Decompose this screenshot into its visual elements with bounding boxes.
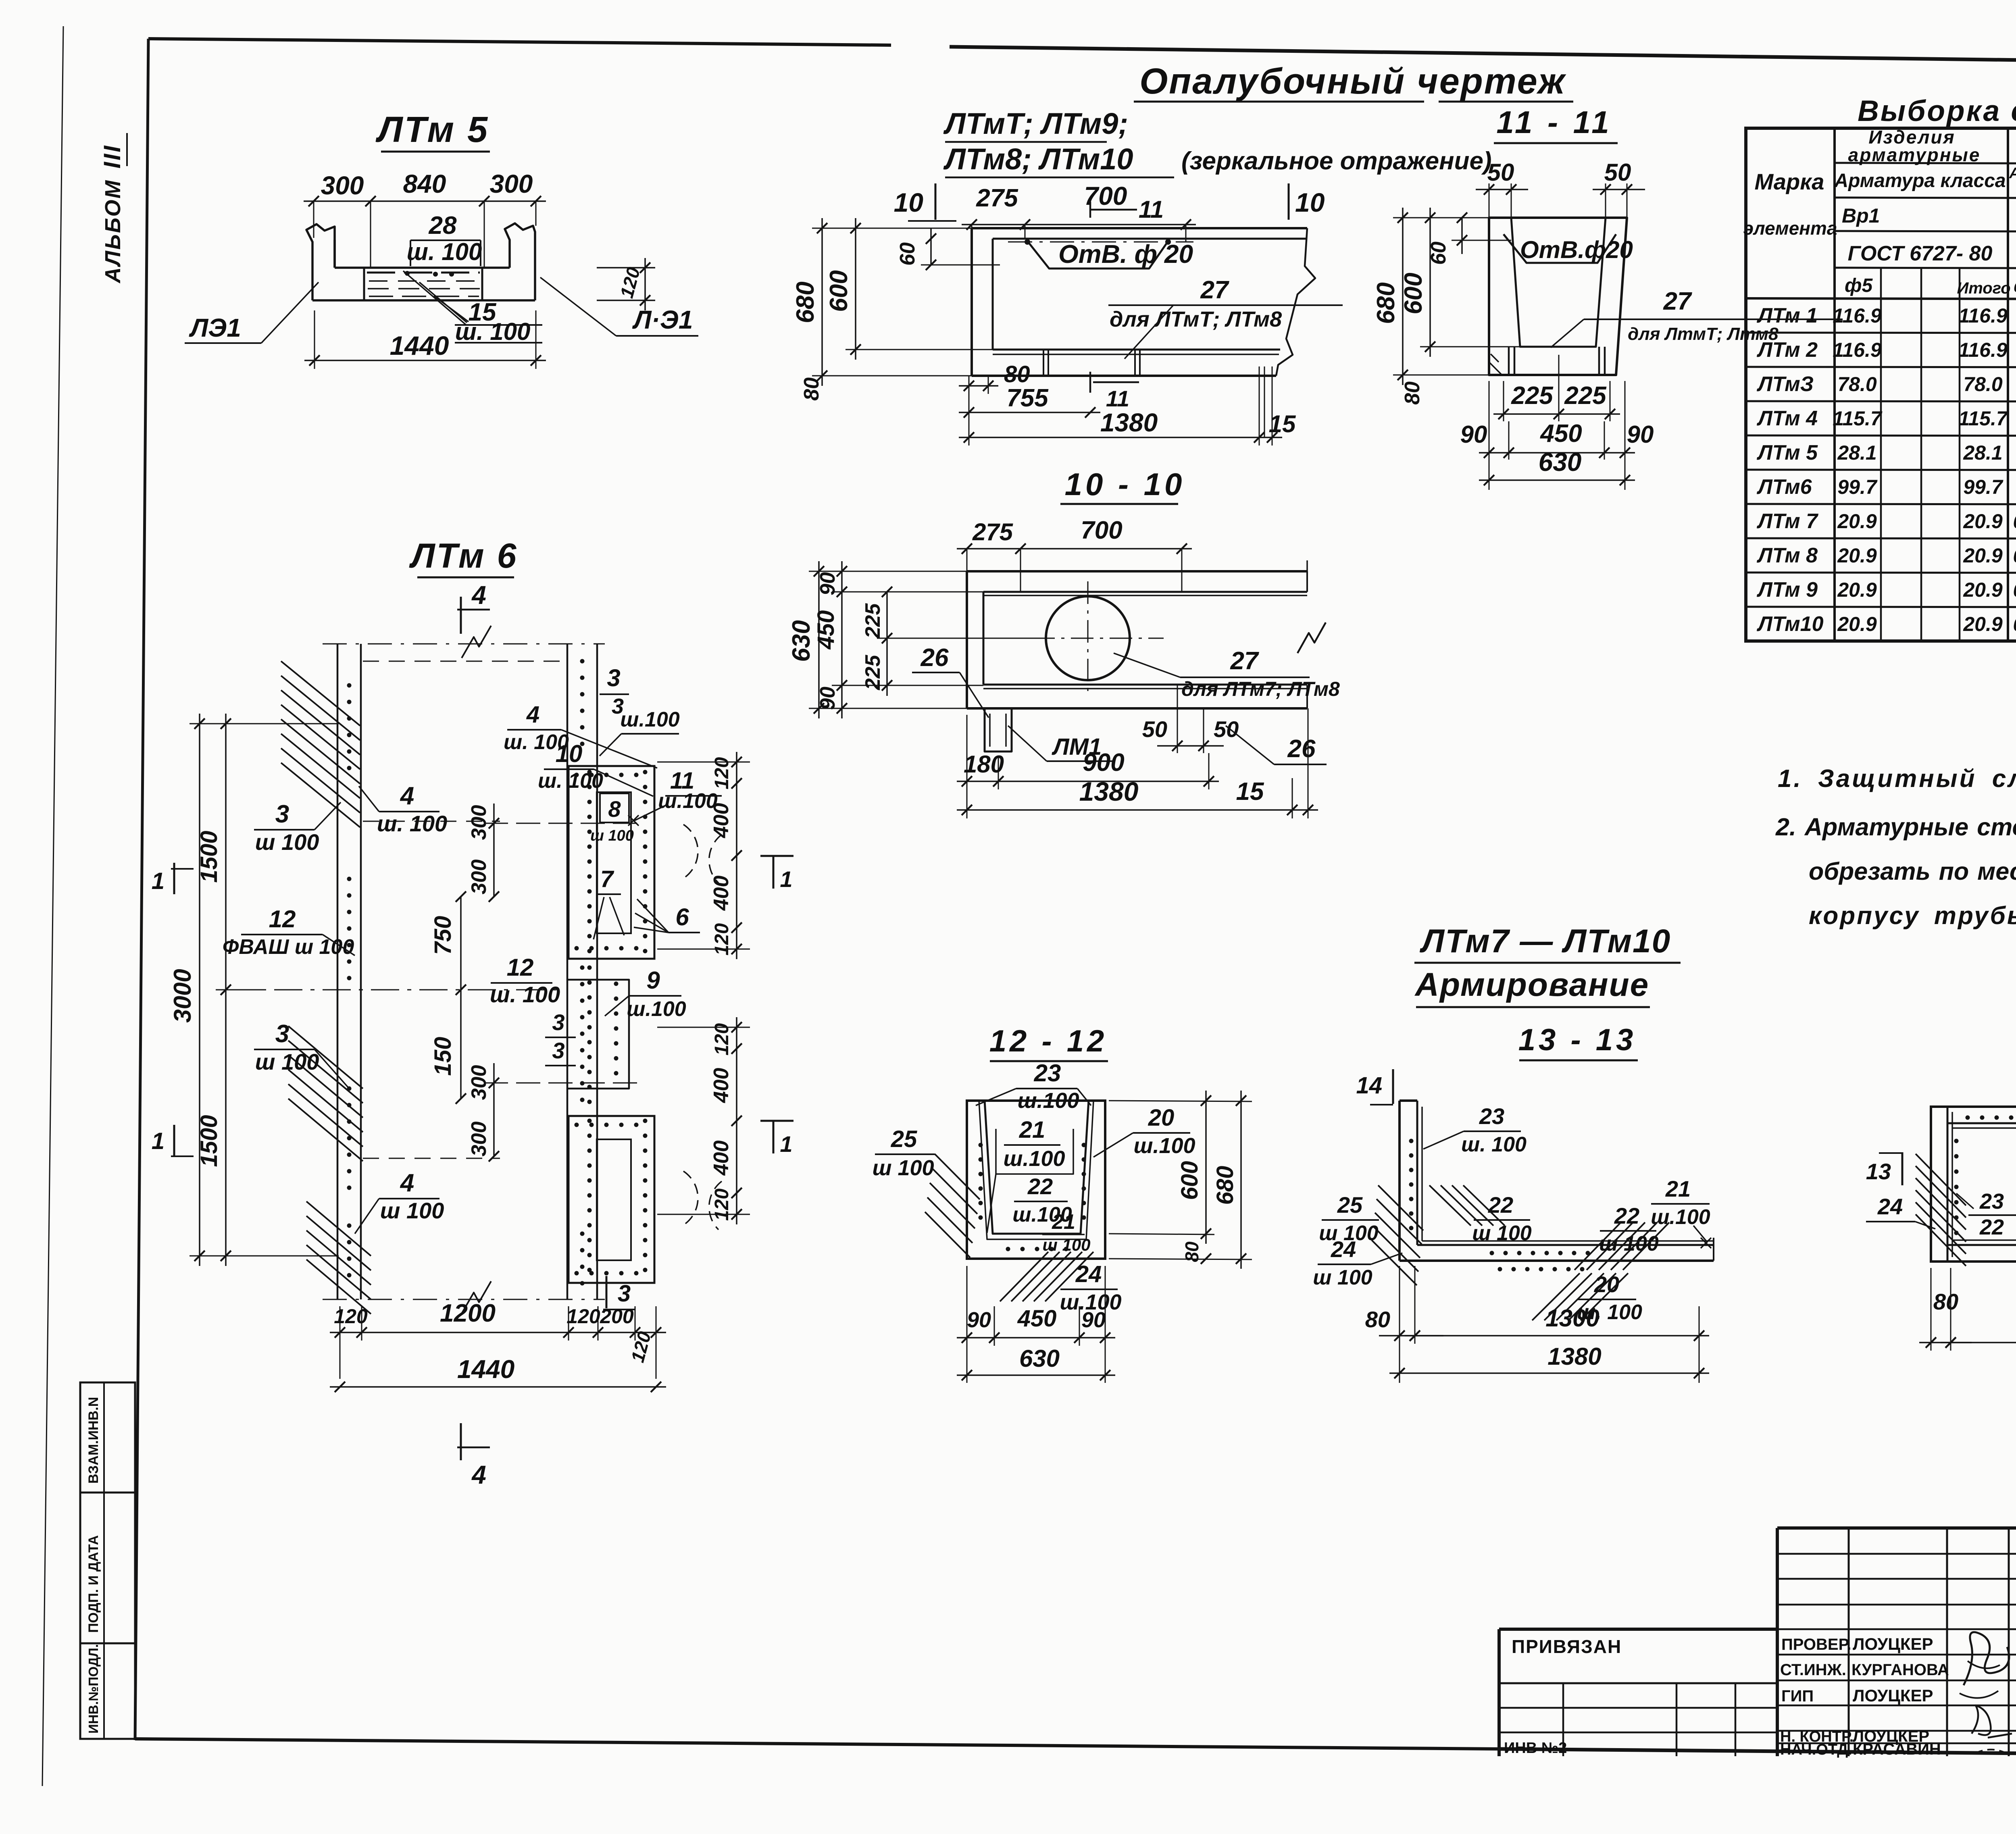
- 11-11 left dim 680: [1402, 208, 1404, 385]
- svg-text:115.7: 115.7: [1958, 407, 2008, 430]
- mark 11 top: [1089, 202, 1091, 218]
- svg-text:ш 100: ш 100: [380, 1198, 444, 1223]
- svg-text:КУРГАНОВА: КУРГАНОВА: [1851, 1661, 1949, 1679]
- 11-11 bottom dim 90/450/90: [1479, 452, 1635, 454]
- svg-text:275: 275: [972, 518, 1014, 545]
- 12-12 bottom dim 90/450/90: [957, 1337, 1115, 1339]
- svg-text:ЛОУЦКЕР: ЛОУЦКЕР: [1853, 1634, 1933, 1653]
- svg-text:ЛТм6: ЛТм6: [1756, 475, 1812, 499]
- LTm7 bottom dim 80: [959, 385, 998, 387]
- svg-text:ш.100: ш.100: [1133, 1134, 1195, 1158]
- svg-text:300: 300: [467, 805, 491, 840]
- svg-text:20.9: 20.9: [1837, 544, 1877, 567]
- svg-text:ЛТм10: ЛТм10: [1756, 612, 1824, 636]
- svg-text:Марка: Марка: [1755, 169, 1824, 194]
- svg-text:Вр1: Вр1: [1842, 204, 1880, 227]
- svg-text:3: 3: [275, 800, 289, 828]
- svg-text:ГИП: ГИП: [1781, 1687, 1814, 1705]
- svg-text:27: 27: [1663, 287, 1692, 315]
- svg-text:1440: 1440: [390, 331, 449, 360]
- svg-text:450: 450: [1539, 420, 1582, 448]
- svg-text:27: 27: [1230, 647, 1259, 675]
- LTm6 long wall lines left pair: [337, 644, 339, 1299]
- svg-text:80: 80: [1365, 1307, 1390, 1332]
- svg-text:ш.100: ш.100: [1003, 1147, 1065, 1171]
- 12-12 body outline: [967, 1101, 1105, 1259]
- svg-text:3: 3: [275, 1020, 289, 1048]
- svg-text:Арматура: Арматура: [2009, 165, 2016, 182]
- svg-text:21: 21: [1665, 1176, 1691, 1201]
- 10-10 left dim 90/450/90: [841, 561, 843, 718]
- svg-text:400: 400: [710, 876, 733, 911]
- svg-text:11: 11: [1139, 196, 1164, 223]
- section mark 3 bottom: [606, 1276, 608, 1308]
- svg-text:225: 225: [1511, 382, 1554, 410]
- svg-text:12: 12: [507, 954, 534, 981]
- svg-text:1: 1: [152, 1128, 165, 1154]
- LTm7 break mark right: [1276, 228, 1315, 376]
- svg-text:120: 120: [566, 1305, 600, 1328]
- svg-text:78.0: 78.0: [1963, 373, 2003, 396]
- svg-text:120: 120: [711, 923, 733, 956]
- svg-text:9: 9: [646, 967, 660, 994]
- LTm5 channel floor line: [335, 266, 510, 269]
- svg-text:28.1: 28.1: [1963, 441, 2002, 464]
- svg-text:ОтВ. ф 20: ОтВ. ф 20: [1058, 239, 1193, 269]
- left stamp column: VZAM.INV cell: [80, 1382, 135, 1493]
- svg-text:630: 630: [1539, 448, 1582, 477]
- svg-text:ОтВ.ф20: ОтВ.ф20: [1520, 236, 1633, 263]
- svg-text:ФВАШ ш 100: ФВАШ ш 100: [223, 935, 354, 959]
- svg-text:3: 3: [607, 664, 620, 691]
- svg-text:20.9: 20.9: [1963, 510, 2003, 533]
- svg-text:ЛТмТ; ЛТм9;: ЛТмТ; ЛТм9;: [943, 107, 1128, 140]
- svg-text:ш. 100: ш. 100: [504, 731, 569, 754]
- svg-text:13 - 13: 13 - 13: [1518, 1023, 1637, 1057]
- svg-text:14: 14: [1356, 1072, 1382, 1099]
- svg-text:НАЧ.ОТД.: НАЧ.ОТД.: [1780, 1741, 1852, 1758]
- LTm5 slab bottom line: [312, 299, 535, 302]
- svg-text:ЛТм 1: ЛТм 1: [1756, 304, 1818, 327]
- 11-11 bottom dim 225/225: [1493, 413, 1620, 415]
- svg-text:90: 90: [1627, 421, 1654, 448]
- svg-text:ИНВ №2: ИНВ №2: [1504, 1740, 1567, 1757]
- LTm6 bottom dim 1440: [330, 1386, 666, 1388]
- svg-text:78.0: 78.0: [1837, 373, 1877, 396]
- svg-text:ЛТм 4: ЛТм 4: [1756, 407, 1818, 430]
- svg-text:обрезать по месту, отогнуть: обрезать по месту, отогнуть и приварить …: [1809, 858, 2016, 885]
- 11-11 top dims 50 50: [1489, 183, 1490, 218]
- 14-14 body outline: [1931, 1107, 2016, 1262]
- svg-text:116.9: 116.9: [1958, 339, 2008, 361]
- svg-text:ш. 100: ш. 100: [455, 318, 531, 345]
- svg-text:ЛТм 8: ЛТм 8: [1756, 544, 1818, 567]
- 11-11 bottom dim 630: [1479, 479, 1635, 481]
- svg-text:ПРОВЕР.: ПРОВЕР.: [1781, 1636, 1851, 1653]
- svg-text:ЛОУЦКЕР: ЛОУЦКЕР: [1853, 1686, 1933, 1705]
- svg-text:680: 680: [1372, 282, 1400, 324]
- svg-text:4: 4: [471, 1460, 486, 1489]
- svg-text:450: 450: [1017, 1305, 1057, 1332]
- svg-text:300: 300: [490, 169, 533, 198]
- svg-text:ш.100: ш.100: [658, 789, 718, 813]
- signature squiggles: [1964, 1632, 2009, 1685]
- title block columns of signature part: [1848, 1528, 1850, 1756]
- svg-text:ЛТм 6: ЛТм 6: [409, 537, 518, 575]
- section mark 1 upper-left: [173, 863, 175, 894]
- svg-text:680: 680: [1212, 1166, 1238, 1205]
- section mark T1 lower: [760, 1120, 793, 1122]
- svg-text:400: 400: [710, 1141, 733, 1176]
- svg-text:20: 20: [1148, 1105, 1175, 1131]
- svg-text:ЛТм 2: ЛТм 2: [1756, 338, 1818, 362]
- svg-text:4: 4: [471, 581, 486, 610]
- svg-text:90: 90: [967, 1308, 991, 1332]
- svg-text:ш.100: ш.100: [1651, 1205, 1710, 1229]
- left stamp column: PODP I DATA cell: [80, 1493, 135, 1643]
- svg-text:ЛТм 7: ЛТм 7: [1756, 510, 1818, 533]
- svg-text:7: 7: [600, 866, 614, 892]
- 12-12 right dim 600: [1109, 1101, 1252, 1101]
- svg-text:22: 22: [1979, 1215, 2004, 1239]
- section mark 1 lower-left: [173, 1125, 175, 1156]
- svg-text:26: 26: [921, 644, 949, 672]
- 13-13 body outline: [1398, 1101, 1401, 1261]
- svg-text:25: 25: [1337, 1192, 1363, 1218]
- svg-text:1300: 1300: [1545, 1305, 1599, 1332]
- svg-text:10: 10: [894, 187, 924, 217]
- svg-text:ЛТм 5: ЛТм 5: [375, 110, 489, 150]
- svg-text:80: 80: [1004, 361, 1030, 387]
- section mark 14 top-left: [1392, 1069, 1394, 1104]
- steel table vertical lines: [1833, 128, 1836, 641]
- svg-text:(зеркальное отражение): (зеркальное отражение): [1181, 147, 1492, 175]
- svg-text:Армирование: Армирование: [1414, 966, 1649, 1003]
- svg-text:300: 300: [467, 1122, 491, 1157]
- 10-10 bottom dim 180/900: [957, 781, 1219, 782]
- frame top border: [148, 39, 891, 45]
- 13-13 rebar dots: [1409, 1139, 1414, 1143]
- svg-text:ш 100: ш 100: [1042, 1235, 1090, 1254]
- 10-10 break mark right: [1297, 622, 1326, 653]
- svg-text:СТ.ИНЖ.: СТ.ИНЖ.: [1780, 1661, 1846, 1679]
- svg-text:120: 120: [711, 1189, 733, 1221]
- svg-text:ЛТм 9: ЛТм 9: [1756, 578, 1818, 602]
- title block rows of signature part: [1777, 1553, 2016, 1555]
- svg-text:1380: 1380: [1547, 1343, 1601, 1370]
- svg-text:Опалубочный чертеж: Опалубочный чертеж: [1139, 61, 1566, 102]
- svg-text:1440: 1440: [457, 1355, 514, 1384]
- svg-text:116.9: 116.9: [1833, 339, 1882, 361]
- LTm7 body outline: [972, 227, 1307, 229]
- svg-text:20.9: 20.9: [1837, 613, 1877, 635]
- svg-text:80: 80: [1933, 1289, 1958, 1314]
- svg-text:4: 4: [400, 782, 414, 810]
- svg-text:11: 11: [1106, 386, 1129, 411]
- svg-text:630: 630: [787, 620, 815, 662]
- LTm6 dims 300 rotated group upper: [493, 804, 495, 897]
- svg-text:для ЛТмТ; ЛТм8: для ЛТмТ; ЛТм8: [1110, 307, 1282, 331]
- svg-text:ш.100: ш.100: [620, 708, 680, 731]
- 11-11 left dim 600: [1429, 208, 1431, 357]
- svg-text:15: 15: [1269, 410, 1296, 437]
- svg-text:1: 1: [780, 866, 792, 892]
- svg-text:ВЗАМ.ИНВ.N: ВЗАМ.ИНВ.N: [86, 1397, 101, 1484]
- LTm5 right height dim 120: [597, 267, 655, 269]
- svg-text:20.9: 20.9: [1837, 579, 1877, 601]
- svg-text:ш. 100: ш. 100: [377, 811, 447, 836]
- svg-text:21: 21: [1052, 1210, 1075, 1234]
- LTm5 bottom dimension 1440: [304, 360, 546, 361]
- 10-10 pipe hole circle: [1046, 596, 1130, 680]
- svg-text:для ЛтмТ; Лтм8: для ЛтмТ; Лтм8: [1628, 324, 1779, 344]
- svg-text:ЛТм 5: ЛТм 5: [1756, 441, 1818, 464]
- LTm6 rebar dots along left wall: [347, 683, 352, 688]
- svg-text:225: 225: [1564, 382, 1607, 410]
- LTm6 hatch on left wall lower: [288, 1026, 363, 1089]
- svg-text:90: 90: [1081, 1308, 1106, 1332]
- LTm5 top dimension chain 300/840/300: [304, 200, 546, 202]
- svg-text:750: 750: [430, 916, 456, 955]
- LTm5 monolithic insert hatched block: [363, 268, 365, 300]
- svg-text:60: 60: [896, 242, 919, 266]
- svg-text:3000: 3000: [169, 969, 196, 1022]
- LTm6 lower reinforcement cage: [569, 1116, 654, 1283]
- 10-10 dim 50/50: [1177, 685, 1178, 753]
- 11-11 hole trapezoid: [1504, 234, 1616, 263]
- svg-text:24: 24: [1331, 1237, 1356, 1262]
- 12-12 rebar dots: [979, 1143, 983, 1147]
- svg-text:900: 900: [1083, 749, 1124, 776]
- svg-text:116.9: 116.9: [1958, 304, 2008, 327]
- svg-text:90: 90: [816, 687, 839, 710]
- svg-text:450: 450: [813, 610, 839, 650]
- svg-text:700: 700: [1081, 516, 1122, 544]
- LTm6 bottom dim chain 120/1200/120/200/120: [330, 1332, 666, 1333]
- svg-text:4: 4: [526, 702, 539, 728]
- svg-text:630: 630: [1019, 1345, 1060, 1372]
- svg-text:50: 50: [1142, 716, 1167, 742]
- svg-text:для ЛТм7; ЛТм8: для ЛТм7; ЛТм8: [1181, 678, 1340, 700]
- svg-text:1380: 1380: [1079, 776, 1139, 806]
- svg-text:80: 80: [1401, 381, 1424, 405]
- svg-text:III: III: [99, 144, 125, 169]
- svg-text:ЛТмЗ: ЛТмЗ: [1756, 373, 1814, 396]
- svg-text:1380: 1380: [1100, 408, 1158, 437]
- svg-text:ш. 100: ш. 100: [490, 982, 560, 1007]
- svg-text:2. Арматурные стержни, перере: 2. Арматурные стержни, перерезаемые труб…: [1775, 813, 2016, 841]
- svg-text:180: 180: [964, 751, 1004, 778]
- svg-text:24: 24: [1075, 1261, 1102, 1287]
- LTm6 long wall lines right pair: [566, 644, 569, 1299]
- svg-text:ш. 100: ш. 100: [407, 238, 482, 265]
- svg-text:275: 275: [976, 184, 1018, 212]
- svg-text:99.7: 99.7: [1837, 476, 1878, 498]
- 13-13 bottom dim 1300: [1405, 1335, 1709, 1336]
- svg-text:20.9: 20.9: [1963, 613, 2003, 635]
- LTm6 right dim chain upper 120/400/400/120: [736, 752, 737, 959]
- svg-text:элемента: элемента: [1743, 218, 1837, 239]
- svg-text:6: 6: [675, 903, 689, 931]
- svg-text:корпусу трубы.: корпусу трубы.: [1809, 902, 2016, 930]
- svg-text:1200: 1200: [440, 1299, 496, 1327]
- svg-text:ш 100: ш 100: [255, 1049, 319, 1074]
- svg-text:ш. 100: ш. 100: [1461, 1133, 1527, 1156]
- svg-text:4: 4: [400, 1169, 414, 1197]
- LTm6 dashed brace curves upper: [683, 824, 698, 877]
- svg-text:600: 600: [1400, 273, 1427, 314]
- svg-text:400: 400: [710, 1068, 733, 1103]
- svg-text:ш 100: ш 100: [255, 829, 319, 855]
- svg-text:ПОДП. И ДАТА: ПОДП. И ДАТА: [86, 1535, 101, 1633]
- svg-text:ш.100: ш.100: [1017, 1089, 1079, 1113]
- 10-10 embedded part LM1 step: [985, 708, 1012, 752]
- svg-text:20: 20: [1594, 1272, 1619, 1297]
- svg-text:0.5: 0.5: [2013, 511, 2016, 533]
- 14-14 rebar dots: [1966, 1116, 1970, 1120]
- LTm5 leaders to 15 sh.100: [403, 271, 466, 325]
- svg-text:20.9: 20.9: [1837, 510, 1877, 533]
- svg-text:120: 120: [334, 1305, 368, 1328]
- 11-11 small dim 60: [1461, 218, 1463, 254]
- svg-text:90: 90: [1460, 421, 1487, 448]
- LTm5 right wall outline: [529, 224, 557, 300]
- svg-text:115.7: 115.7: [1833, 407, 1883, 430]
- LTm7 bottom dim 755: [959, 412, 1100, 413]
- svg-text:80: 80: [800, 377, 823, 401]
- 14-14 bottom dim 1380: [1941, 1342, 2016, 1343]
- LTm6 upper reinforcement cage: [569, 766, 654, 959]
- 10-10 left dim 630: [818, 561, 820, 718]
- svg-text:21: 21: [1019, 1117, 1045, 1143]
- svg-text:ПРИВЯЗАН: ПРИВЯЗАН: [1512, 1636, 1622, 1657]
- svg-text:Итого: Итого: [1957, 279, 2010, 297]
- svg-text:27: 27: [1200, 276, 1229, 304]
- paper left edge line: [42, 26, 63, 1786]
- 12-12 right dim 680 and 80: [1109, 1259, 1252, 1259]
- LTm6 break marks top/bottom: [323, 643, 605, 645]
- LTm6 left dim 3000: [199, 714, 200, 1266]
- svg-text:13: 13: [1866, 1159, 1891, 1184]
- svg-text:0.5: 0.5: [2013, 545, 2016, 567]
- left stamp column: INV N PODL cell: [80, 1643, 135, 1739]
- 14-14 hatch left wall: [1916, 1154, 1966, 1205]
- LTm7 hole trapezoid Otv f20: [1026, 239, 1169, 269]
- svg-text:116.9: 116.9: [1833, 304, 1882, 327]
- svg-text:12 - 12: 12 - 12: [989, 1024, 1108, 1058]
- svg-text:24: 24: [1877, 1194, 1903, 1219]
- svg-text:23: 23: [1979, 1189, 2004, 1214]
- 11-11 body outline: [1489, 218, 1627, 375]
- 10-10 dim 225/225 vertical: [886, 592, 888, 696]
- svg-text:0.5: 0.5: [2013, 614, 2016, 635]
- LTm6 middle cage segment: [567, 980, 629, 1089]
- svg-text:3: 3: [618, 1280, 631, 1307]
- svg-text:КРАСАВИН: КРАСАВИН: [1853, 1740, 1941, 1758]
- svg-text:80: 80: [1181, 1241, 1202, 1262]
- LTm6 rebar dots along right wall: [580, 659, 585, 664]
- 13-13 bottom dim 1380: [1389, 1372, 1709, 1374]
- svg-text:200: 200: [600, 1305, 634, 1328]
- svg-text:ЛТм8; ЛТм10: ЛТм8; ЛТм10: [943, 142, 1133, 176]
- svg-text:Арматура класса: Арматура класса: [1834, 170, 2006, 192]
- svg-text:10: 10: [1295, 187, 1325, 217]
- svg-text:300: 300: [467, 860, 491, 895]
- svg-text:3: 3: [552, 1010, 564, 1035]
- LTm5 left wall outline: [306, 224, 335, 300]
- svg-text:ф5: ф5: [1845, 275, 1873, 296]
- frame bottom border: [135, 1739, 1499, 1749]
- svg-text:25: 25: [891, 1126, 917, 1152]
- svg-text:23: 23: [1479, 1103, 1504, 1129]
- svg-text:Выборка стали на один элем: Выборка стали на один элемент, кг: [1858, 95, 2016, 127]
- svg-text:АЛЬБОМ: АЛЬБОМ: [101, 179, 125, 284]
- svg-text:28.1: 28.1: [1837, 441, 1876, 464]
- mark 11 bottom: [1089, 372, 1091, 393]
- title block outer frame: [1777, 1526, 2016, 1530]
- svg-text:50: 50: [1604, 159, 1631, 186]
- svg-text:26: 26: [1287, 735, 1316, 763]
- svg-text:ш. 100: ш. 100: [538, 769, 603, 793]
- svg-text:60: 60: [1427, 241, 1450, 265]
- svg-text:ИНВ.№ПОДЛ.: ИНВ.№ПОДЛ.: [86, 1644, 101, 1734]
- svg-text:11 - 11: 11 - 11: [1496, 104, 1612, 140]
- svg-text:28: 28: [429, 212, 457, 239]
- svg-text:арматурные: арматурные: [1848, 144, 1981, 165]
- section mark 13 left: [1901, 1152, 1904, 1185]
- svg-text:ш 100: ш 100: [1313, 1266, 1372, 1289]
- svg-text:1: 1: [780, 1131, 792, 1157]
- LTm6 dashed brace curves lower: [683, 1171, 698, 1224]
- title block left privyazan part grid: [1499, 1682, 1777, 1684]
- svg-text:120: 120: [711, 1023, 733, 1055]
- svg-text:840: 840: [403, 169, 446, 198]
- svg-text:150: 150: [430, 1037, 456, 1076]
- svg-text:50: 50: [1487, 159, 1514, 186]
- steel table grid: [1746, 128, 2016, 641]
- LTm7 left dim 680: [821, 218, 823, 386]
- svg-text:0.5: 0.5: [2013, 580, 2016, 601]
- svg-text:755: 755: [1006, 384, 1049, 412]
- svg-text:20.9: 20.9: [1963, 579, 2003, 601]
- 13-13 hatch left wall: [1378, 1185, 1423, 1230]
- svg-text:99.7: 99.7: [1963, 476, 2004, 498]
- LTm6 dashed centerlines: [226, 989, 564, 991]
- LTm7 weld marks on bottom flange: [1043, 350, 1044, 376]
- 12-12 bottom dim 630: [957, 1374, 1115, 1376]
- 10-10 bottom dim 1380 / 15: [957, 809, 1318, 811]
- LTm6 right dim chain lower 120/400/400/120: [736, 1017, 737, 1224]
- svg-text:600: 600: [1177, 1161, 1203, 1200]
- svg-text:10 - 10: 10 - 10: [1065, 466, 1185, 502]
- svg-text:1. Защитный слой бетона 20м: 1. Защитный слой бетона 20мм.: [1778, 765, 2016, 793]
- LTm7 small dim 60: [930, 228, 932, 265]
- section mark 4 bottom: [460, 1423, 462, 1460]
- LTm6 dims 300 rotated group lower: [493, 1063, 495, 1156]
- svg-text:ГОСТ 6727- 80: ГОСТ 6727- 80: [1848, 242, 1993, 265]
- svg-text:680: 680: [791, 281, 819, 323]
- LTm6 left dim chain 1500/1500: [225, 714, 227, 1266]
- LTm7 bottom dim 1380 / 15: [959, 437, 1282, 438]
- svg-text:225: 225: [861, 603, 885, 639]
- section mark T1 upper: [760, 855, 793, 857]
- svg-text:ш 100: ш 100: [590, 827, 634, 844]
- svg-text:8: 8: [608, 796, 621, 822]
- svg-text:ЛЭ1: ЛЭ1: [189, 313, 241, 342]
- svg-text:300: 300: [321, 171, 364, 200]
- svg-text:22: 22: [1027, 1174, 1053, 1199]
- svg-text:15: 15: [1236, 778, 1264, 806]
